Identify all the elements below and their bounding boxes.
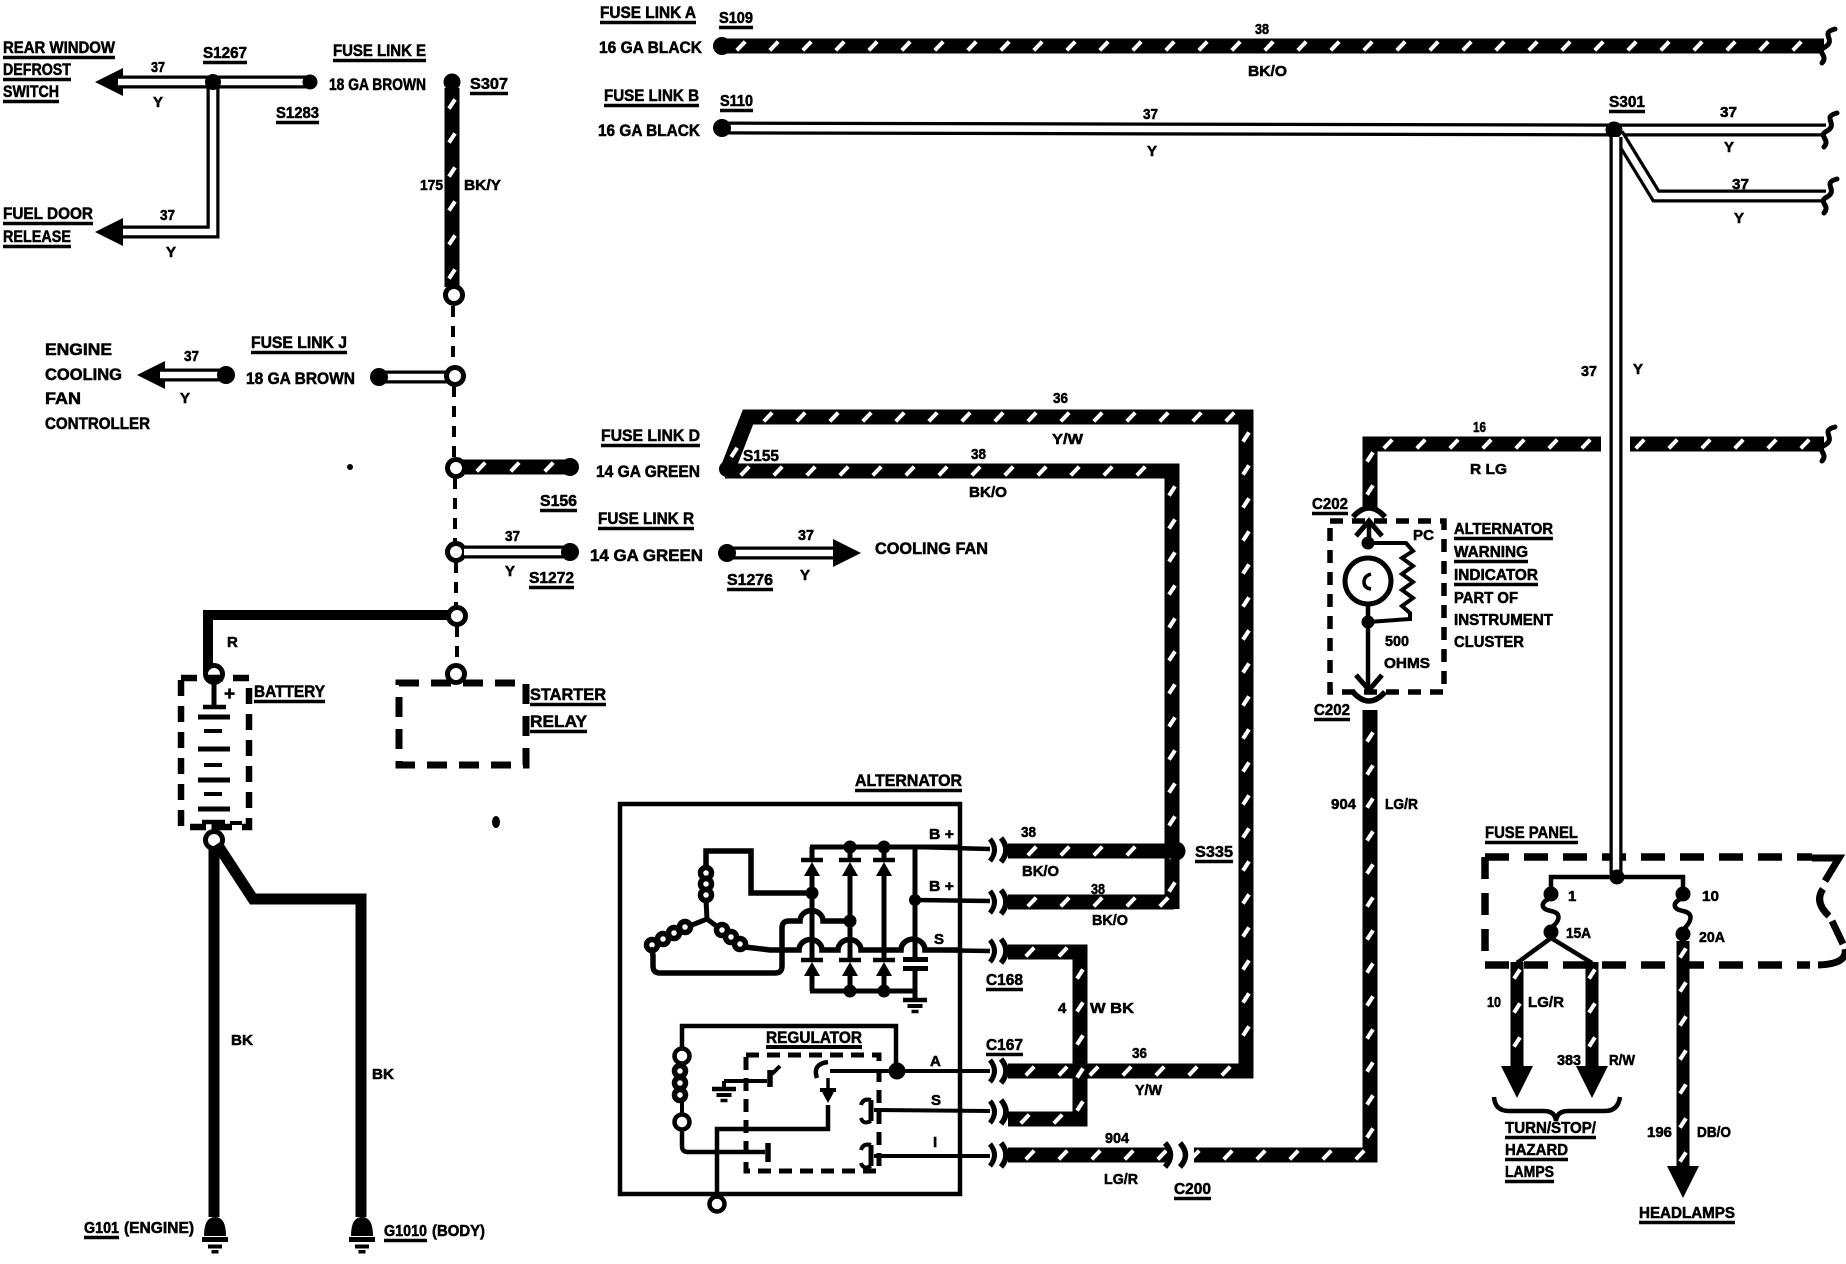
svg-text:G101: G101 — [84, 1220, 119, 1237]
svg-text:S1267: S1267 — [203, 45, 247, 62]
svg-text:STARTER: STARTER — [530, 685, 606, 704]
connector S lower C167 — [990, 1100, 1006, 1124]
ground G1010 — [349, 1217, 375, 1254]
break symbol R LG wire — [1821, 427, 1835, 461]
svg-text:S: S — [934, 931, 944, 948]
field winding bottom ring — [675, 1115, 690, 1130]
splice S109 label — [719, 10, 753, 28]
regulator S element — [861, 1100, 871, 1123]
svg-text:C202: C202 — [1314, 702, 1350, 719]
splice S307 label — [470, 76, 508, 94]
hatched wire 4 W/BK — [1008, 948, 1083, 1124]
lamp to C202 lower wire — [1366, 604, 1371, 686]
break symbol wire 37 upper — [1823, 113, 1837, 147]
svg-text:PC: PC — [1413, 527, 1434, 544]
warning lamp — [1345, 558, 1391, 604]
battery feed wire R — [208, 615, 450, 674]
svg-text:14 GA GREEN: 14 GA GREEN — [596, 462, 700, 481]
svg-text:S335: S335 — [1195, 844, 1233, 861]
rectifier diode top 3 — [873, 847, 895, 962]
svg-text:R: R — [227, 634, 238, 651]
svg-text:PART OF: PART OF — [1454, 590, 1518, 607]
wire 37 Y to cooling fan controller — [160, 369, 222, 382]
cluster text ALTERNATOR — [1454, 521, 1553, 539]
splice S307 — [444, 74, 461, 91]
svg-text:C202: C202 — [1312, 496, 1348, 513]
svg-text:Y: Y — [166, 244, 176, 261]
fuse link B wire 37 Y — [728, 128, 1610, 130]
hatched wire 904 LG/R — [1008, 710, 1373, 1159]
battery top terminal — [203, 682, 226, 707]
dashed bus wire segments — [453, 306, 457, 664]
rectifier diode bottom 2 — [839, 960, 861, 991]
field bottom wire — [682, 1129, 765, 1152]
svg-text:Y: Y — [153, 94, 163, 111]
svg-text:383: 383 — [1557, 1052, 1581, 1069]
svg-text:S1283: S1283 — [276, 105, 319, 122]
terminal wire I — [874, 1154, 990, 1158]
regulator case ground ring — [710, 1197, 725, 1212]
ground G101 — [202, 1217, 228, 1254]
svg-text:37: 37 — [184, 348, 199, 365]
svg-text:BK/O: BK/O — [969, 484, 1007, 501]
connector C202 lower label — [1314, 702, 1350, 720]
svg-text:37: 37 — [1581, 363, 1597, 380]
stator phase A wire — [706, 851, 812, 893]
svg-text:LG/R: LG/R — [1528, 994, 1564, 1011]
regulator wire zener to ground rail — [717, 1105, 828, 1199]
ring on bus node fuse link D — [448, 460, 465, 477]
svg-text:BK/O: BK/O — [1022, 863, 1059, 880]
fuse link E hatched wire 175 BK/Y — [449, 88, 455, 287]
title line3 — [3, 82, 59, 102]
svg-text:TURN/STOP/: TURN/STOP/ — [1505, 1120, 1597, 1137]
svg-text:37: 37 — [160, 207, 175, 224]
node phase B to diodes — [844, 915, 857, 928]
artifact speck — [492, 816, 500, 828]
svg-text:(BODY): (BODY) — [432, 1223, 485, 1240]
svg-text:BK/O: BK/O — [1248, 63, 1287, 80]
title FUEL DOOR line1 — [3, 204, 93, 224]
node lamp top — [1362, 537, 1375, 550]
break symbol wire 37 lower — [1823, 179, 1837, 213]
ring junction on bus — [449, 608, 466, 625]
splice S301 — [1606, 122, 1623, 139]
regulator internal wire t1 base — [724, 1079, 767, 1083]
svg-text:B +: B + — [929, 826, 954, 843]
svg-text:R LG: R LG — [1470, 461, 1507, 478]
fuse link R wire 37 Y — [464, 546, 566, 559]
load label TURN/STOP/ — [1505, 1120, 1597, 1138]
fuse 15A output fork — [1517, 938, 1592, 963]
rectifier diode bottom 1 — [801, 960, 823, 991]
node fuse panel feed — [1610, 870, 1625, 885]
suppression capacitor — [903, 957, 928, 993]
svg-text:HAZARD: HAZARD — [1505, 1142, 1568, 1159]
title FUSE LINK A — [600, 3, 696, 23]
terminal wire A — [903, 1069, 990, 1073]
svg-text:S301: S301 — [1609, 94, 1645, 111]
svg-text:36: 36 — [1053, 390, 1068, 407]
wire 37 Y to fuel door release (vertical+horizontal) — [118, 88, 213, 232]
connector C168 label — [986, 972, 1023, 990]
arrow to rear window defrost switch — [95, 68, 123, 96]
ground G1010 label — [384, 1223, 427, 1241]
battery minus sign — [230, 821, 242, 825]
svg-text:37: 37 — [505, 528, 520, 545]
fuse panel bus wire — [1551, 877, 1683, 890]
node top bus 2 — [844, 841, 857, 854]
svg-text:C200: C200 — [1174, 1181, 1211, 1198]
svg-text:196: 196 — [1647, 1124, 1672, 1141]
fuse link D hatched stub — [463, 463, 566, 472]
fuse link D wire 36 Y/W — [727, 413, 1249, 1076]
hatched wire 38 BK/O to S335 — [1008, 847, 1170, 856]
node phase A to diodes — [806, 887, 819, 900]
hatched wire 16 R LG right part — [1630, 440, 1824, 449]
svg-text:37: 37 — [1143, 106, 1158, 123]
ring on bus node fuse link R — [448, 544, 465, 561]
fuse panel dashed outline — [1485, 857, 1845, 965]
title FUSE LINK B — [604, 86, 699, 106]
cluster outlet arrow — [1356, 675, 1382, 690]
svg-text:10: 10 — [1487, 994, 1501, 1011]
title FUSE LINK J — [251, 333, 347, 353]
svg-text:BATTERY: BATTERY — [254, 682, 326, 701]
stator phase C / S wire — [745, 939, 958, 950]
splice S110 — [713, 119, 731, 137]
connector I C167 — [990, 1143, 1006, 1167]
svg-text:10: 10 — [1702, 888, 1719, 905]
regulator t2 base bar — [765, 1143, 771, 1162]
svg-text:38: 38 — [971, 446, 986, 463]
connector C202 lower — [1353, 692, 1385, 701]
connector C202 upper label — [1312, 496, 1348, 514]
svg-text:Y/W: Y/W — [1052, 431, 1084, 448]
svg-text:1: 1 — [1568, 888, 1576, 905]
fuse 20A element — [1675, 898, 1691, 930]
splice dot left of fuse link J — [217, 366, 235, 384]
splice S335 — [1167, 842, 1186, 861]
svg-text:Y: Y — [1147, 143, 1157, 160]
starter relay label line1 — [530, 685, 606, 705]
fuse 15A top node — [1544, 887, 1559, 902]
wire 37 Y right of S301 — [1618, 124, 1826, 137]
artifact dot — [347, 464, 353, 470]
svg-text:FUSE LINK B: FUSE LINK B — [604, 86, 699, 105]
svg-text:C168: C168 — [986, 972, 1023, 989]
stator wye junction — [692, 900, 719, 928]
regulator I element — [861, 1145, 871, 1168]
svg-text:A: A — [930, 1053, 941, 1070]
svg-text:S1276: S1276 — [727, 572, 773, 589]
fuse panel label — [1485, 823, 1578, 843]
svg-text:37: 37 — [1732, 176, 1749, 193]
svg-text:ALTERNATOR: ALTERNATOR — [1454, 521, 1553, 538]
connector S upper C168 — [990, 939, 1006, 963]
svg-text:+: + — [224, 684, 235, 705]
svg-text:B +: B + — [929, 878, 954, 895]
svg-text:FUSE LINK R: FUSE LINK R — [598, 509, 694, 528]
svg-text:904: 904 — [1331, 796, 1357, 813]
svg-text:C167: C167 — [986, 1037, 1023, 1054]
cluster dashed box — [1330, 521, 1444, 692]
svg-text:20A: 20A — [1699, 929, 1725, 946]
suppression capacitor branch — [913, 847, 918, 957]
splice S110 label — [720, 93, 753, 111]
arrow to engine cooling fan controller — [137, 361, 165, 389]
svg-text:18 GA BROWN: 18 GA BROWN — [246, 369, 355, 388]
fuse link A hatched wire 38 BK/O — [727, 42, 1824, 51]
svg-text:I: I — [933, 1134, 937, 1151]
fuse link J wire — [384, 371, 450, 384]
hatched wire A stub — [1008, 1067, 1075, 1076]
hatched arrow wire 383 R/W — [1589, 962, 1595, 1068]
regulator transistor 1 — [816, 1062, 828, 1078]
svg-text:16 GA BLACK: 16 GA BLACK — [599, 38, 703, 57]
starter relay label line2 — [530, 712, 588, 732]
node bottom bus 3 — [878, 985, 891, 998]
splice S1267 — [205, 74, 221, 90]
svg-text:500: 500 — [1385, 633, 1409, 650]
resistor PC — [1368, 543, 1413, 622]
svg-text:DEFROST: DEFROST — [3, 60, 72, 79]
hatched wire 38 BK/O lower — [1008, 898, 1174, 907]
terminal wire S lower — [874, 1110, 990, 1111]
svg-text:REGULATOR: REGULATOR — [766, 1029, 862, 1047]
terminal wire B+ 1 — [915, 847, 990, 849]
rectifier diode bottom 3 — [873, 960, 895, 991]
battery bottom ring — [206, 832, 223, 849]
svg-text:37: 37 — [1720, 104, 1737, 121]
svg-text:Y: Y — [505, 563, 515, 580]
wire 37 Y diagonal branch — [1618, 134, 1826, 196]
load label LAMPS — [1505, 1164, 1554, 1182]
alternator internal ground — [903, 991, 927, 1012]
node bottom bus 2 — [844, 985, 857, 998]
svg-text:Y: Y — [1734, 210, 1744, 227]
splice S301 label — [1609, 94, 1645, 112]
splice dot fuse link D — [561, 458, 579, 476]
rectifier diode top 1 — [801, 847, 823, 962]
field to A terminal wire — [682, 1026, 896, 1065]
svg-text:RELAY: RELAY — [530, 712, 588, 731]
battery top ring — [206, 666, 223, 683]
svg-text:S1272: S1272 — [529, 570, 574, 587]
title FUSE LINK R — [598, 509, 694, 529]
splice S1267 label — [203, 45, 247, 63]
connector C202 upper — [1353, 508, 1385, 517]
svg-text:38: 38 — [1255, 21, 1269, 38]
svg-text:(ENGINE): (ENGINE) — [124, 1220, 194, 1237]
svg-text:16: 16 — [1473, 419, 1486, 436]
svg-text:FUSE LINK D: FUSE LINK D — [601, 426, 700, 445]
battery cells — [198, 717, 230, 809]
battery label — [254, 682, 326, 702]
load label HAZARD — [1505, 1142, 1568, 1160]
wire 37 Y from S1267 to defrost arrow — [118, 76, 216, 89]
field winding — [675, 1063, 686, 1115]
title REAR WINDOW DEFROST SWITCH line1 — [3, 38, 116, 58]
svg-text:ALTERNATOR: ALTERNATOR — [855, 771, 962, 790]
starter relay dashed box — [399, 683, 526, 765]
svg-text:COOLING FAN: COOLING FAN — [875, 539, 988, 558]
svg-text:Y: Y — [180, 390, 190, 407]
svg-text:S109: S109 — [719, 10, 753, 27]
ground G101 label — [84, 1220, 119, 1238]
ring on bus node fuse link J — [447, 368, 464, 385]
regulator t1 base bar — [767, 1070, 773, 1087]
svg-text:FAN: FAN — [45, 389, 81, 408]
svg-text:FUSE PANEL: FUSE PANEL — [1485, 823, 1578, 842]
svg-text:COOLING: COOLING — [45, 365, 122, 384]
splice S1276 label — [727, 572, 773, 590]
node A junction — [889, 1063, 906, 1080]
svg-text:16 GA BLACK: 16 GA BLACK — [598, 121, 701, 140]
splice S1272 label — [529, 570, 574, 588]
connector B+ 2 — [990, 890, 1006, 914]
svg-text:15A: 15A — [1566, 925, 1591, 942]
regulator A internal wire — [830, 1069, 893, 1073]
svg-text:CONTROLLER: CONTROLLER — [45, 414, 150, 433]
cooling fan wire 37 Y — [731, 547, 838, 560]
break symbol fuse link A — [1821, 29, 1835, 63]
battery bottom terminal — [202, 822, 225, 833]
arrowhead 196 DB/O — [1667, 1166, 1699, 1198]
rectifier bottom bus wire — [810, 989, 916, 994]
svg-text:WARNING: WARNING — [1454, 544, 1528, 561]
svg-text:S307: S307 — [470, 76, 508, 93]
connector A C167 — [990, 1059, 1006, 1083]
splice S1283 label — [276, 105, 319, 123]
splice dot fuse link R — [561, 543, 579, 561]
arrow to cooling fan — [833, 539, 861, 567]
svg-text:Y/W: Y/W — [1135, 1082, 1163, 1099]
svg-text:37: 37 — [151, 59, 165, 76]
svg-text:S156: S156 — [540, 493, 577, 510]
svg-text:INSTRUMENT: INSTRUMENT — [1454, 612, 1553, 629]
svg-text:BK: BK — [231, 1032, 253, 1049]
field winding top ring — [675, 1049, 690, 1064]
svg-text:FUSE LINK E: FUSE LINK E — [333, 41, 426, 60]
regulator label — [766, 1029, 862, 1047]
regulator t1 emitter tick — [772, 1066, 780, 1074]
arrowhead 383 R/W — [1576, 1066, 1608, 1098]
rectifier diode top 2 — [839, 847, 861, 962]
svg-text:RELEASE: RELEASE — [3, 227, 71, 246]
wire 37 Y from S301 to fuse panel — [1610, 137, 1623, 874]
stator coil phase right — [717, 925, 746, 950]
arrow to fuel door release — [95, 218, 123, 246]
connector B+ 1 — [990, 838, 1006, 862]
stator coil phase left — [647, 922, 691, 951]
connector ring below fuse link E — [446, 287, 463, 304]
node B+ branch — [909, 894, 921, 906]
svg-text:LAMPS: LAMPS — [1505, 1164, 1554, 1181]
svg-text:FUEL DOOR: FUEL DOOR — [3, 204, 93, 223]
fuse 20A bottom node — [1676, 927, 1691, 942]
svg-text:S: S — [931, 1092, 941, 1109]
svg-text:S110: S110 — [720, 93, 753, 110]
fuse 15A element — [1543, 898, 1559, 928]
svg-text:G1010: G1010 — [384, 1223, 427, 1240]
splice S1283 — [303, 75, 318, 90]
svg-text:CLUSTER: CLUSTER — [1454, 634, 1524, 651]
svg-text:LG/R: LG/R — [1385, 796, 1418, 813]
fuse 20A top node — [1676, 887, 1691, 902]
connector C167 label — [986, 1037, 1023, 1055]
battery ground wire BK right — [217, 844, 361, 1217]
svg-text:38: 38 — [1021, 824, 1036, 841]
svg-text:INDICATOR: INDICATOR — [1454, 567, 1538, 584]
splice S335 label — [1195, 844, 1233, 862]
battery dashed box — [181, 678, 249, 827]
svg-text:BK: BK — [372, 1066, 394, 1083]
dashed wire to starter relay — [455, 626, 459, 664]
svg-text:HEADLAMPS: HEADLAMPS — [1639, 1205, 1735, 1222]
svg-text:Y: Y — [1724, 139, 1734, 156]
svg-text:FUSE LINK J: FUSE LINK J — [251, 333, 347, 352]
splice S1276 — [718, 544, 736, 562]
svg-text:S155: S155 — [743, 448, 779, 465]
arrowhead 10 LG/R — [1501, 1066, 1533, 1098]
fuse link D wire 38 BK/O — [725, 467, 1175, 909]
splice S155 label — [743, 448, 779, 466]
regulator zener diode — [820, 1078, 836, 1103]
svg-text:BK/Y: BK/Y — [464, 177, 501, 194]
regulator ground symbol — [712, 1081, 736, 1101]
svg-text:DB/O: DB/O — [1697, 1124, 1731, 1141]
splice S156 label — [540, 493, 577, 511]
svg-text:38: 38 — [1091, 881, 1105, 898]
connector C200 label — [1174, 1181, 1211, 1199]
svg-text:18 GA BROWN: 18 GA BROWN — [329, 75, 426, 94]
svg-text:36: 36 — [1132, 1045, 1147, 1062]
wire from S1267 to S1283 — [213, 76, 310, 89]
title line2 — [3, 60, 72, 80]
terminal wire B+ 2 — [915, 900, 990, 901]
node lamp bottom — [1362, 616, 1375, 629]
svg-text:OHMS: OHMS — [1384, 655, 1430, 672]
cluster inlet arrow — [1356, 521, 1382, 545]
stator coil phase top — [701, 868, 712, 901]
splice S109 — [713, 37, 731, 55]
stator phase B wire — [650, 911, 850, 973]
node top bus 3 — [878, 841, 891, 854]
hatched arrow wire 10 LG/R — [1514, 962, 1520, 1068]
svg-text:SWITCH: SWITCH — [3, 82, 59, 101]
regulator dashed box — [746, 1055, 879, 1171]
hatched arrow wire 196 DB/O — [1680, 941, 1686, 1168]
splice S155 blob — [719, 461, 735, 477]
brace turn stop hazard — [1494, 1097, 1620, 1121]
svg-text:REAR WINDOW: REAR WINDOW — [3, 38, 116, 57]
cluster text WARNING — [1454, 544, 1528, 562]
svg-text:Y: Y — [1633, 361, 1643, 378]
rectifier top bus wire — [810, 845, 958, 850]
load label HEADLAMPS — [1639, 1205, 1735, 1223]
title FUEL DOOR line2 — [3, 227, 71, 247]
svg-text:BK/O: BK/O — [1092, 912, 1128, 929]
svg-text:FUSE LINK A: FUSE LINK A — [600, 3, 696, 22]
terminal wire S upper — [925, 950, 990, 951]
splice dot fuse link J — [370, 368, 388, 386]
cluster text INDICATOR — [1454, 567, 1538, 585]
connector C200 — [1165, 1143, 1194, 1167]
title FUSE LINK E — [333, 41, 426, 61]
svg-text:4: 4 — [1058, 1000, 1067, 1017]
alternator label — [855, 771, 962, 791]
